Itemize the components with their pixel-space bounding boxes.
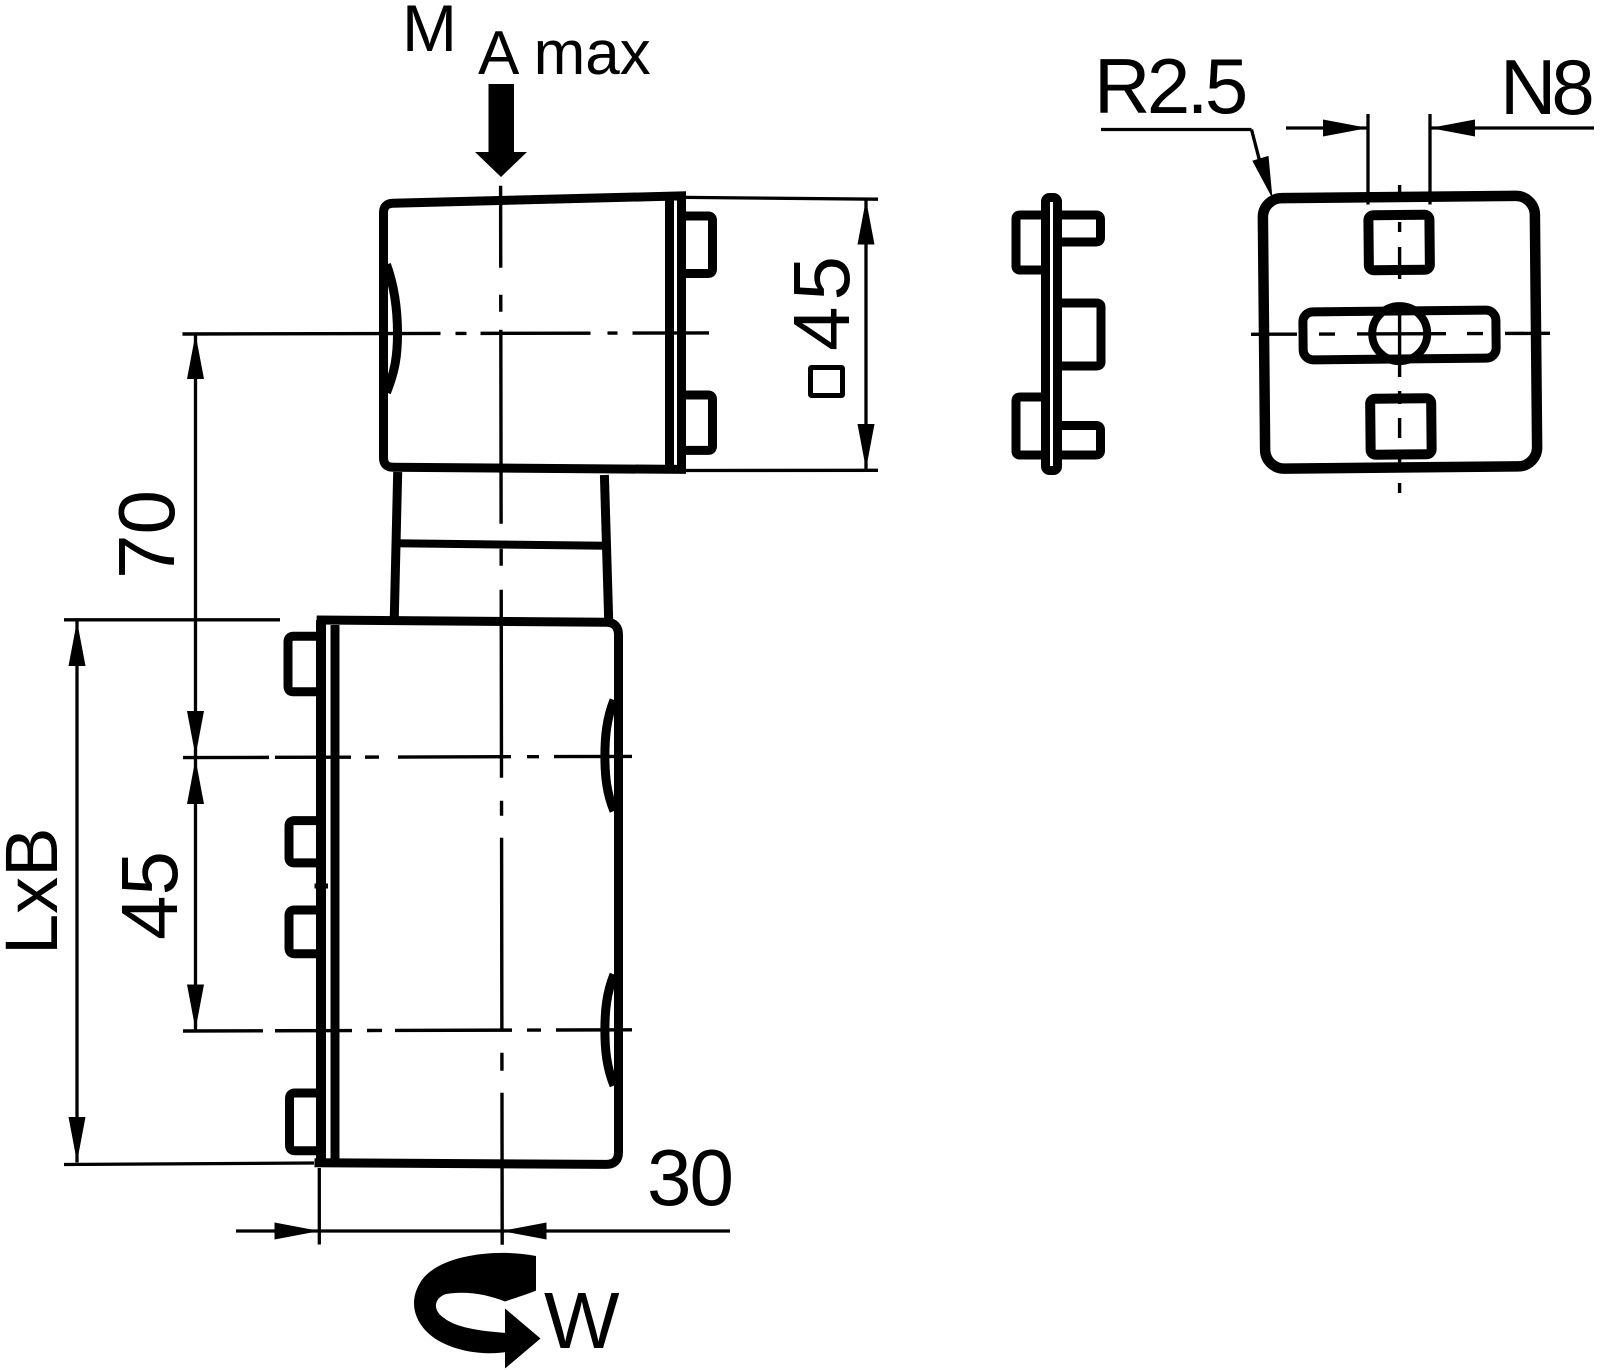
svg-text:max: max — [534, 19, 651, 88]
svg-text:N8: N8 — [1500, 43, 1591, 131]
svg-text:W: W — [544, 1276, 620, 1365]
svg-text:M: M — [402, 0, 457, 65]
svg-text:70: 70 — [102, 490, 191, 579]
svg-text:LxB: LxB — [0, 827, 73, 955]
svg-text:30: 30 — [647, 1133, 732, 1222]
svg-text:R2.5: R2.5 — [1094, 42, 1246, 130]
svg-text:45: 45 — [777, 250, 866, 351]
svg-text:45: 45 — [105, 851, 194, 940]
svg-text:A: A — [478, 19, 520, 88]
